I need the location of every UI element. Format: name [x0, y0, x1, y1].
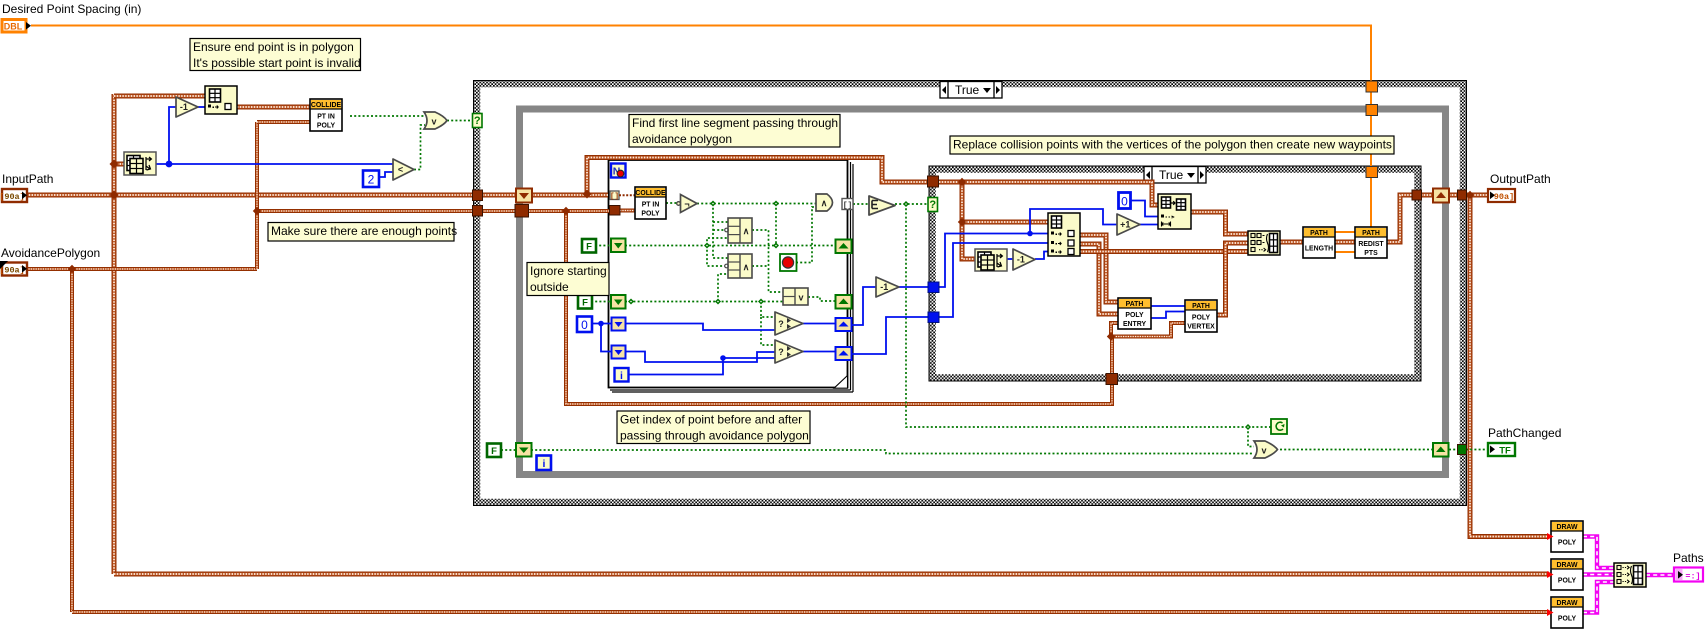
tunnel: index into case2 [928, 282, 939, 293]
comment: ensure end point [190, 39, 361, 71]
while loop iteration terminal i [537, 456, 552, 471]
node: loop condition continue [1271, 419, 1287, 434]
svg-text:DBL: DBL [4, 22, 23, 32]
wire: F3 to SR [501, 449, 516, 451]
svg-text:F: F [582, 298, 588, 309]
node: less than [393, 159, 414, 180]
wire: idx to index array r1 [939, 234, 1048, 288]
node: decrement (top left) [176, 97, 198, 117]
svg-text:True: True [1159, 168, 1184, 182]
comment: find first line segment [629, 115, 840, 148]
wire junction x257 [253, 207, 261, 215]
wire: green ladder left [713, 204, 728, 259]
node: decrement (case2) [1013, 249, 1035, 270]
wire: decrement to index array [198, 106, 205, 108]
case structure 2 (inner, True case) border [933, 170, 1418, 378]
svg-text:COLLIDE: COLLIDE [635, 190, 666, 197]
case structure (outer, True case) border [477, 84, 1463, 502]
svg-text:∧: ∧ [743, 226, 750, 236]
case selector label (outer) True [940, 82, 1002, 99]
wire: index out 3 to build array [1080, 249, 1248, 254]
wire junction polygon split [1107, 332, 1115, 340]
wire junction OutputPath [1466, 191, 1474, 199]
node: Draw Poly 1 [1551, 521, 1583, 552]
wire: F const to SR [595, 245, 611, 247]
wire: InputPath to Draw Poly 2 [114, 572, 1549, 577]
svg-text:-1: -1 [180, 102, 188, 112]
wire: 0 const to insert [1130, 201, 1158, 217]
wire: collide1 out to or gate [350, 115, 424, 117]
tunnel: bool out of case [1458, 445, 1467, 455]
node: Path Poly Vertex [1185, 300, 1217, 332]
node: Build Array (case2) [1248, 231, 1280, 255]
svg-text:Make sure there are enough poi: Make sure there are enough points [271, 224, 457, 238]
wire: to continue terminal [1248, 426, 1271, 428]
svg-text:?: ? [929, 199, 936, 211]
svg-text:?: ? [778, 347, 784, 357]
indicator terminal Paths [1674, 568, 1703, 582]
wire: AvoidancePolygon vertical x=257 [255, 122, 259, 269]
wire: poly entry to vertex 2 [1151, 312, 1185, 319]
svg-text:+1: +1 [1120, 220, 1130, 230]
wire junction x587 [583, 190, 592, 199]
node: Array Size 2 (case2) [975, 249, 1007, 271]
wire junction x114 InputPath [110, 191, 119, 200]
wire junction [773, 243, 779, 249]
wire: OutputPath branch to Draw Poly 1 [1470, 195, 1549, 537]
comment: enough points [268, 223, 457, 242]
node: Index Array (top left) [205, 86, 237, 114]
wire: to and2 hook [707, 246, 725, 267]
svg-text:∧: ∧ [821, 198, 828, 208]
svg-text:v: v [431, 117, 436, 127]
svg-text:POLY: POLY [1192, 315, 1211, 322]
wire: path element to collide2 [619, 194, 635, 196]
wire: F2 line to compound or [625, 301, 783, 303]
wire: idx2 to index array r2 [939, 243, 1048, 317]
wire: polygon to insert array [939, 182, 1158, 205]
svg-text:DRAW: DRAW [1556, 562, 1578, 569]
tunnel: InputPath into case [473, 190, 483, 201]
wire: const 2 to less-than [379, 172, 393, 177]
wire: F shift register line [625, 245, 835, 247]
wire: branch to and2 in3 [718, 274, 728, 302]
svg-text:v: v [1261, 446, 1266, 456]
wire: to PathChanged [1466, 449, 1487, 451]
node: Not gate [677, 195, 697, 213]
wire: polygon tunnel to collide2 [620, 209, 635, 213]
node: decrement (loop) [876, 277, 899, 297]
svg-text:VERTEX: VERTEX [1187, 324, 1215, 331]
node: select 2 [775, 340, 803, 363]
node: Draw Poly 2 [1551, 559, 1583, 590]
svg-text:POLY: POLY [641, 211, 660, 218]
wire junction zero [598, 321, 604, 327]
wire junction x114 array size [110, 160, 119, 169]
svg-text:POLY: POLY [317, 123, 336, 130]
wire: to select2 [761, 317, 775, 345]
wire: InputPath case to loop [482, 193, 516, 198]
tunnel: orange case2 top [1366, 167, 1378, 178]
svg-text:v: v [798, 293, 803, 303]
tunnel: AvoidancePolygon into case [473, 206, 483, 217]
svg-text:PT IN: PT IN [642, 202, 660, 209]
tunnel: AvoidancePolygon into loop [515, 205, 529, 218]
wire: branch to index array 2 [962, 220, 1048, 225]
wire: 0 to SR1 [592, 323, 612, 325]
node: Or gate (top left) [424, 112, 447, 129]
svg-text:[90a]: [90a] [0, 266, 25, 276]
wire: InputPath to Array Size [114, 162, 124, 167]
constant F 1 [582, 239, 596, 253]
wire: AvoidancePolygon into case [257, 209, 474, 213]
svg-text:-1: -1 [880, 282, 888, 292]
for loop border [609, 160, 854, 392]
wire junction x962 top [958, 178, 966, 186]
comment: get index of point [617, 411, 810, 444]
node: compound and 1 [725, 218, 752, 243]
wire: SR1 to select1 [625, 324, 775, 331]
node: Collide Point In Polygon 2 [635, 187, 666, 219]
svg-text:ENTRY: ENTRY [1123, 321, 1147, 328]
wire: to and1 in1 [713, 221, 728, 223]
svg-text:0: 0 [581, 318, 588, 332]
wire: AvoidancePolygon vertical branch x=72 [70, 269, 74, 612]
shift register left (path) [516, 189, 532, 203]
svg-text:OutputPath: OutputPath [1490, 172, 1551, 186]
for loop SR blue 2 left [612, 346, 626, 359]
for loop SR blue 2 right [836, 347, 852, 360]
red coercion dot draw poly 3 [1547, 609, 1554, 616]
svg-text:Ignore starting: Ignore starting [530, 264, 607, 278]
wire junction x566 [562, 207, 570, 215]
wire: +1 to insert [1140, 224, 1158, 226]
wire: poly entry to vertex 1 [1151, 305, 1185, 307]
svg-text:Paths: Paths [1673, 551, 1704, 565]
tunnel: index2 into case2 [928, 312, 939, 323]
wire: AvoidancePolygon case to loop [482, 209, 515, 213]
for loop SR blue 1 left [612, 318, 626, 331]
wire: draw poly2 to build [1583, 572, 1614, 576]
wire: polygon from tunnel up [1110, 337, 1114, 386]
wire: branch to +1 [1030, 209, 1117, 234]
wire: Desired Point Spacing DBL [31, 26, 1371, 228]
wire: build to path length [1280, 240, 1303, 245]
svg-text:¬: ¬ [684, 199, 689, 209]
wire junction blue size [166, 161, 173, 168]
node: Array Size (top left) [124, 152, 156, 175]
wire: array size2 to decrement [1007, 258, 1013, 260]
shift register left (bool) [516, 443, 532, 457]
node: select 1 [775, 312, 803, 335]
wire: build to Paths [1646, 573, 1673, 577]
wire junction [715, 299, 721, 305]
svg-text:passing through avoidance poly: passing through avoidance polygon [620, 428, 809, 442]
svg-text:AvoidancePolygon: AvoidancePolygon [1, 246, 100, 260]
constant F 2 [578, 295, 592, 309]
constant 0 (case2) [1119, 193, 1131, 209]
wire: tunnel to decrement b [852, 287, 876, 325]
wire: or gate to case selector [447, 120, 473, 122]
wire: path length to redist upper [1335, 231, 1355, 233]
wire junction x962 [958, 218, 966, 226]
tunnel: polygon into for loop [610, 206, 621, 216]
svg-text:PATH: PATH [1310, 230, 1328, 237]
svg-text:PATH: PATH [1192, 303, 1210, 310]
wire: and-array to case2 selector [895, 203, 928, 205]
for loop SR green 2 right [836, 295, 852, 309]
wire: draw poly1 to build [1583, 537, 1614, 569]
wire: polygon to poly entry bottom [1111, 323, 1118, 337]
shift register right (bool) [1433, 443, 1449, 457]
svg-text:POLY: POLY [1558, 540, 1577, 547]
node: increment [1117, 214, 1140, 235]
node: Collide Point In Polygon 1 [310, 99, 342, 131]
node: Draw Poly 3 [1551, 597, 1583, 628]
wire junction idx [1027, 231, 1033, 237]
wire junction [710, 201, 716, 207]
wire junction boolean out [903, 201, 909, 207]
wire: decrement b to case2 [899, 286, 928, 288]
wire: InputPath vertical branch x=114 [112, 94, 117, 574]
wire: index out 1 to poly entry [1080, 235, 1118, 302]
shift register right (path) [1433, 189, 1449, 203]
comment: ignore starting outside [527, 263, 609, 296]
wire: stop to and gate [796, 207, 816, 263]
wire: boolean down to loop or [906, 204, 1248, 427]
node: compound or [783, 288, 808, 305]
control terminal InputPath [0, 189, 27, 202]
wire: draw poly3 to build [1583, 582, 1614, 613]
svg-text:TF: TF [1499, 446, 1511, 457]
wire: or to loop SR [1280, 449, 1433, 451]
node: Index Array 2 (case2, expanded) [1048, 213, 1080, 256]
node: stop button [780, 254, 797, 271]
svg-text:90a]: 90a] [1494, 192, 1514, 202]
svg-text:[]: [] [610, 193, 619, 201]
wire: compound or to SR [808, 297, 835, 301]
tunnel: orange loop top [1366, 105, 1378, 116]
svg-text:Replace collision points with: Replace collision points with the vertic… [953, 138, 1392, 152]
tunnel: for loop indexed output [] [842, 199, 853, 211]
indicator terminal PathChanged TF [1488, 443, 1515, 457]
wire: to or gate top [1248, 427, 1254, 447]
node: Build Array (paths) [1614, 563, 1646, 587]
wire junction x72 [68, 265, 76, 273]
control terminal AvoidancePolygon [0, 261, 27, 276]
svg-text:∧: ∧ [743, 262, 750, 272]
wire: branch to array size 2 [962, 182, 975, 259]
wire junction [704, 243, 710, 249]
svg-text:PTS: PTS [1364, 250, 1378, 257]
wire: InputPath to Index Array [114, 94, 205, 99]
wire: InputPath inside loop [532, 193, 587, 198]
svg-text:i: i [620, 370, 623, 382]
wire: not gate to and chain [697, 203, 816, 205]
svg-text:=:]: =:] [1685, 572, 1700, 582]
svg-text:DRAW: DRAW [1556, 524, 1578, 531]
for loop SR green 2 left [611, 295, 626, 309]
svg-text:POLY: POLY [1558, 578, 1577, 585]
svg-text:[]: [] [843, 201, 853, 210]
svg-text:Find first line segment passin: Find first line segment passing through [632, 116, 838, 130]
wire: AvoidancePolygon horizontal [26, 267, 257, 271]
svg-text:2: 2 [368, 173, 375, 187]
wire: decrement to index r3 [1035, 252, 1048, 260]
tunnel: for loop indexed input [] [610, 191, 619, 201]
tunnel: path out of case2 [1412, 190, 1422, 200]
svg-text:DRAW: DRAW [1556, 600, 1578, 607]
svg-text:PATH: PATH [1362, 230, 1380, 237]
node: And Array Elements [869, 196, 895, 215]
svg-text:PathChanged: PathChanged [1488, 426, 1561, 440]
wire: loop SR to case tunnel [1449, 193, 1457, 198]
wire: SR to case tunnel [1449, 449, 1457, 451]
for loop iteration terminal i [615, 368, 629, 382]
wire: green vertical x776 [775, 204, 777, 246]
while loop (gray) border [520, 109, 1446, 475]
svg-text:Desired Point Spacing (in): Desired Point Spacing (in) [2, 2, 141, 16]
node: Or gate (loop bottom) [1254, 441, 1278, 458]
wire: AvoidancePolygon inside loop [529, 209, 609, 213]
wire: to and1 in3 [707, 238, 728, 246]
svg-text:F: F [491, 446, 497, 457]
svg-text:i: i [543, 458, 546, 470]
wire: less-than to or gate [414, 125, 425, 170]
wire: index out 2 to poly entry [1080, 244, 1118, 314]
node: Insert Into Array [1158, 194, 1191, 229]
svg-text:POLY: POLY [1558, 616, 1577, 623]
for loop count terminal N [611, 164, 626, 178]
svg-text:<: < [398, 165, 403, 175]
wire: and2 out [752, 265, 769, 267]
wire: case to OutputPath [1466, 193, 1487, 198]
svg-text:?: ? [474, 115, 481, 127]
node: Path Length [1303, 227, 1335, 258]
wire: SR2 to select2 [625, 352, 775, 363]
node: And gate [816, 194, 833, 211]
wire: for loop out to and-array [853, 203, 869, 205]
red coercion dot draw poly 2 [1547, 571, 1554, 578]
tunnel: orange case top [1366, 81, 1378, 92]
svg-text:-1: -1 [1017, 255, 1025, 265]
svg-text:[90a]: [90a] [0, 192, 25, 202]
svg-text:PT IN: PT IN [317, 114, 335, 121]
control terminal DBL (Desired Point Spacing) [2, 20, 31, 33]
wire: AvoidancePolygon around for loop [566, 211, 1112, 404]
wire: path length to redist path [1335, 240, 1355, 245]
svg-text:?: ? [778, 319, 784, 329]
tunnel: path out of case [1458, 190, 1467, 200]
wire junction loop or [1245, 424, 1251, 430]
svg-text:outside: outside [530, 280, 569, 294]
wire: path length to redist lower [1335, 251, 1355, 253]
case selector label (inner) True [1144, 167, 1206, 184]
for loop SR green 1 left [611, 239, 626, 253]
svg-text:True: True [955, 83, 980, 97]
svg-text:COLLIDE: COLLIDE [311, 102, 342, 109]
tunnel: case selector terminal ? [473, 114, 483, 128]
wire: insert out to build array row1 [1191, 212, 1248, 234]
svg-text:0: 0 [1121, 195, 1128, 209]
wire: collide2 to not gate [666, 202, 677, 204]
indicator terminal OutputPath [1488, 189, 1515, 202]
wire: to decrement [169, 107, 176, 164]
wire: F2 to SR [591, 301, 611, 303]
svg-text:LENGTH: LENGTH [1305, 246, 1333, 253]
wire junction [758, 299, 764, 305]
for loop SR green 1 right [836, 240, 852, 254]
tunnel: polygon case2 bottom [1106, 374, 1118, 385]
svg-text:F: F [586, 242, 592, 253]
wire: AvoidancePolygon to Collide PtInPoly [257, 120, 310, 124]
wire: tunnel to case2 idx [852, 317, 928, 354]
wire: AvoidancePolygon to Draw Poly 3 [72, 610, 1549, 614]
wire: InputPath over for loop to case2 [587, 158, 928, 194]
node: Path Poly Entry [1118, 298, 1151, 329]
comment: replace collision points [950, 136, 1394, 154]
red coercion dot draw poly 1 [1547, 533, 1554, 540]
wire: 0 to SR2 [601, 324, 612, 352]
wire: polygon to poly vertex bottom [1111, 323, 1185, 337]
svg-text:Ensure end point is in polygon: Ensure end point is in polygon [193, 40, 354, 54]
wire: to select1 [761, 302, 775, 318]
wire: array size to less-than [156, 163, 393, 165]
node: Path Redist Pts [1355, 227, 1387, 258]
wire: to loop shift register [1421, 193, 1433, 198]
svg-text:It's possible start point is i: It's possible start point is invalid [193, 56, 361, 70]
wire: and1 out to compound or [752, 230, 783, 292]
wire: InputPath horizontal [26, 193, 474, 198]
svg-text:avoidance polygon: avoidance polygon [632, 132, 732, 146]
wire: redist out [1387, 195, 1412, 242]
wire: select1 out [803, 323, 835, 325]
svg-text:REDIST: REDIST [1358, 241, 1384, 248]
wire junction [628, 299, 634, 305]
wire: F shift line bottom [531, 450, 1254, 454]
wire: poly vertex out to build array row2 [1217, 243, 1248, 315]
svg-text:PATH: PATH [1126, 301, 1144, 308]
node: compound and 2 [725, 254, 752, 278]
svg-text:Get index of point before and: Get index of point before and after [620, 413, 802, 427]
wire: InputPath to for loop tunnel [587, 193, 608, 198]
constant F 3 [487, 444, 501, 458]
constant 2 [363, 171, 379, 188]
wire: Index Array out to Collide PtInPoly [237, 105, 310, 110]
wire: i to select2 [629, 358, 775, 375]
wire junction i [720, 355, 726, 361]
tunnel: case2 selector terminal ? [928, 198, 938, 212]
wire: select2 out [803, 351, 835, 353]
constant 0 (for loop) [577, 317, 592, 333]
tunnel: polygon into case2 [928, 176, 939, 187]
svg-text:InputPath: InputPath [2, 172, 53, 186]
for loop SR blue 1 right [836, 318, 852, 331]
svg-text:POLY: POLY [1125, 312, 1144, 319]
wire junction [773, 201, 779, 207]
wire: to and1 hook [713, 229, 725, 231]
